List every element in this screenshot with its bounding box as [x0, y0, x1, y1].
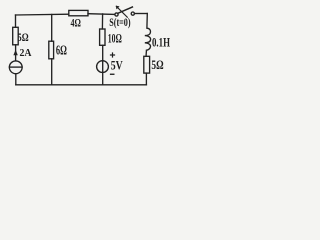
svg-text:10Ω: 10Ω	[108, 32, 122, 46]
inductor L 0.1H coil	[145, 14, 151, 57]
svg-text:0.1H: 0.1H	[152, 36, 170, 50]
label minus stroke	[110, 74, 115, 75]
resistor R2 6ohm box	[49, 41, 54, 59]
wire through voltage source to bottom	[102, 45, 104, 85]
label plus horizontal stroke	[110, 54, 115, 55]
svg-text:2A: 2A	[20, 47, 32, 59]
current source 2A circle	[9, 61, 22, 74]
svg-text:6Ω: 6Ω	[56, 42, 67, 57]
svg-text:5Ω: 5Ω	[17, 30, 28, 44]
wire 6ohm branch bottom	[51, 59, 53, 85]
switch S arrow shaft	[116, 6, 127, 17]
resistor R1 5ohm left box	[13, 27, 19, 45]
switch S contact left	[115, 13, 118, 16]
wire right vertical bottom stub	[145, 73, 147, 85]
switch S contact right	[131, 12, 134, 15]
svg-text:4Ω: 4Ω	[71, 18, 81, 30]
current source 2A arrow head	[13, 50, 17, 56]
resistor R3 4ohm box on top wire	[69, 10, 88, 15]
svg-text:5V: 5V	[111, 57, 123, 72]
wire left vertical mid (2A arrow shaft)	[15, 45, 17, 61]
wire top horizontal right section	[135, 13, 148, 15]
svg-text:5Ω: 5Ω	[151, 57, 163, 72]
wire bottom horizontal	[16, 84, 147, 86]
wire top horizontal left section	[16, 13, 69, 16]
wire left vertical top stub	[15, 15, 17, 27]
wire 10ohm branch top	[101, 14, 103, 29]
svg-text:S(t=0): S(t=0)	[109, 17, 131, 29]
switch S blade	[118, 7, 132, 13]
voltage source 5V circle	[97, 61, 109, 73]
current source 2A bar	[10, 66, 23, 68]
wire top horizontal mid section	[88, 13, 115, 16]
switch S arrow head	[116, 6, 120, 10]
wire left vertical bottom stub	[15, 74, 17, 85]
label plus vertical stroke	[112, 52, 113, 57]
resistor R5 5ohm right box	[144, 56, 150, 73]
wire 6ohm branch top	[51, 15, 53, 42]
resistor R4 10ohm box	[100, 29, 105, 45]
